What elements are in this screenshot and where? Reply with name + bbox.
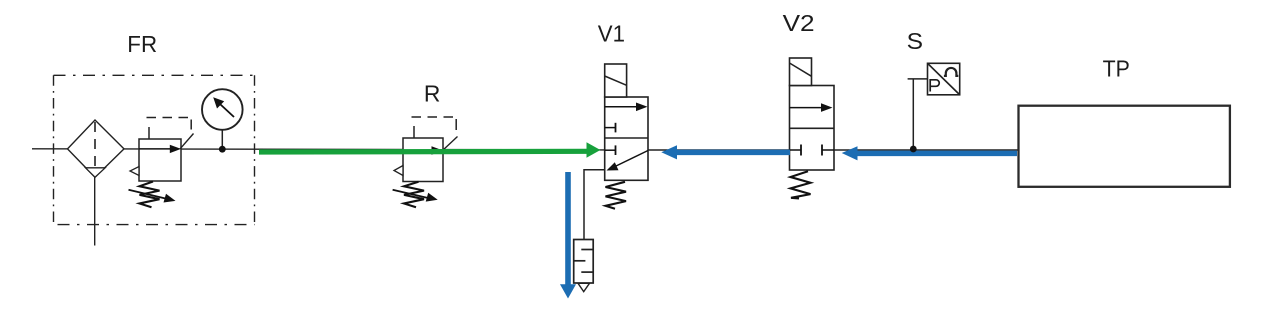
green flow arrow FR to V1: [259, 149, 587, 155]
valve V2 position divider: [790, 127, 835, 129]
silencer tick 2: [574, 260, 586, 262]
regulator (FR) flow arrow: [139, 148, 172, 150]
regulator R body: [403, 138, 443, 182]
valve V2 top box flow arrow: [790, 107, 824, 109]
regulator (FR) pilot dashed line: [148, 127, 150, 139]
regulator R adjuster diagonal: [442, 137, 458, 152]
svg-text:V1: V1: [598, 21, 625, 47]
valve V1 blocked port (lower): [605, 149, 616, 151]
regulator (FR) body: [139, 139, 181, 181]
svg-text:TP: TP: [1103, 55, 1130, 81]
blue flow arrow V2 to V1: [677, 150, 791, 156]
valve V2 blocked port left: [790, 149, 802, 151]
wire: main line V1 to TP: [648, 149, 1019, 151]
regulator R spring: [404, 182, 424, 208]
valve V1 position divider: [605, 137, 648, 139]
FR unit enclosure (dash-dot box): [54, 74, 255, 76]
valve V1 blocked port (upper): [605, 127, 616, 129]
valve V1 exhaust diagonal arrow: [615, 151, 648, 167]
regulator (FR) adjuster diagonal: [180, 134, 194, 149]
filter center dashed line: [94, 122, 96, 176]
svg-text:FR: FR: [127, 31, 157, 57]
valve V1 return spring: [606, 182, 627, 209]
filter F (diamond): [68, 120, 125, 177]
regulator R pilot dashed line: [413, 126, 415, 138]
valve V2 body: [790, 86, 835, 171]
valve V1 top box flow arrow: [605, 106, 638, 108]
svg-text:R: R: [424, 81, 441, 107]
valve V1 exhaust wire (L-shape): [584, 170, 605, 240]
sensor S letter P: [930, 80, 939, 92]
silencer outlet triangle: [578, 283, 590, 291]
blue flow arrow V1 exhaust down: [565, 172, 571, 285]
regulator R flow line: [403, 150, 434, 152]
valve V2 solenoid: [790, 58, 812, 86]
valve V2 return spring: [791, 171, 811, 198]
gauge stem: [221, 130, 223, 150]
junction dot at gauge: [219, 146, 226, 153]
regulator (FR) spring: [140, 182, 160, 208]
silencer body: [574, 240, 594, 284]
wire: main supply line left section: [32, 149, 605, 150]
svg-text:V2: V2: [783, 10, 815, 36]
svg-text:S: S: [907, 28, 923, 54]
sensor S diagonal: [928, 64, 959, 95]
sensor S body: [928, 63, 960, 95]
valve V1 solenoid: [605, 64, 627, 97]
valve V2 blocked port right: [822, 149, 834, 151]
filter drain line: [94, 178, 96, 246]
sensor S contact arc: [944, 68, 958, 76]
filter condensate triangle: [86, 168, 106, 177]
valve V1 body: [605, 97, 648, 180]
regulator R adjustment arrow: [393, 190, 428, 198]
blue flow arrow TP to V2: [857, 151, 1017, 157]
silencer tick 3: [581, 271, 593, 273]
regulator (FR) relief triangle: [130, 167, 139, 176]
sensor S connection lines: [908, 78, 928, 80]
gauge needle: [221, 105, 235, 118]
pressure gauge: [202, 89, 243, 130]
test piece TP box: [1019, 106, 1230, 187]
junction dot at sensor S: [910, 146, 917, 153]
silencer tick 1: [581, 249, 593, 251]
regulator R relief triangle: [394, 166, 403, 176]
regulator (FR) adjustment arrow: [129, 190, 167, 199]
